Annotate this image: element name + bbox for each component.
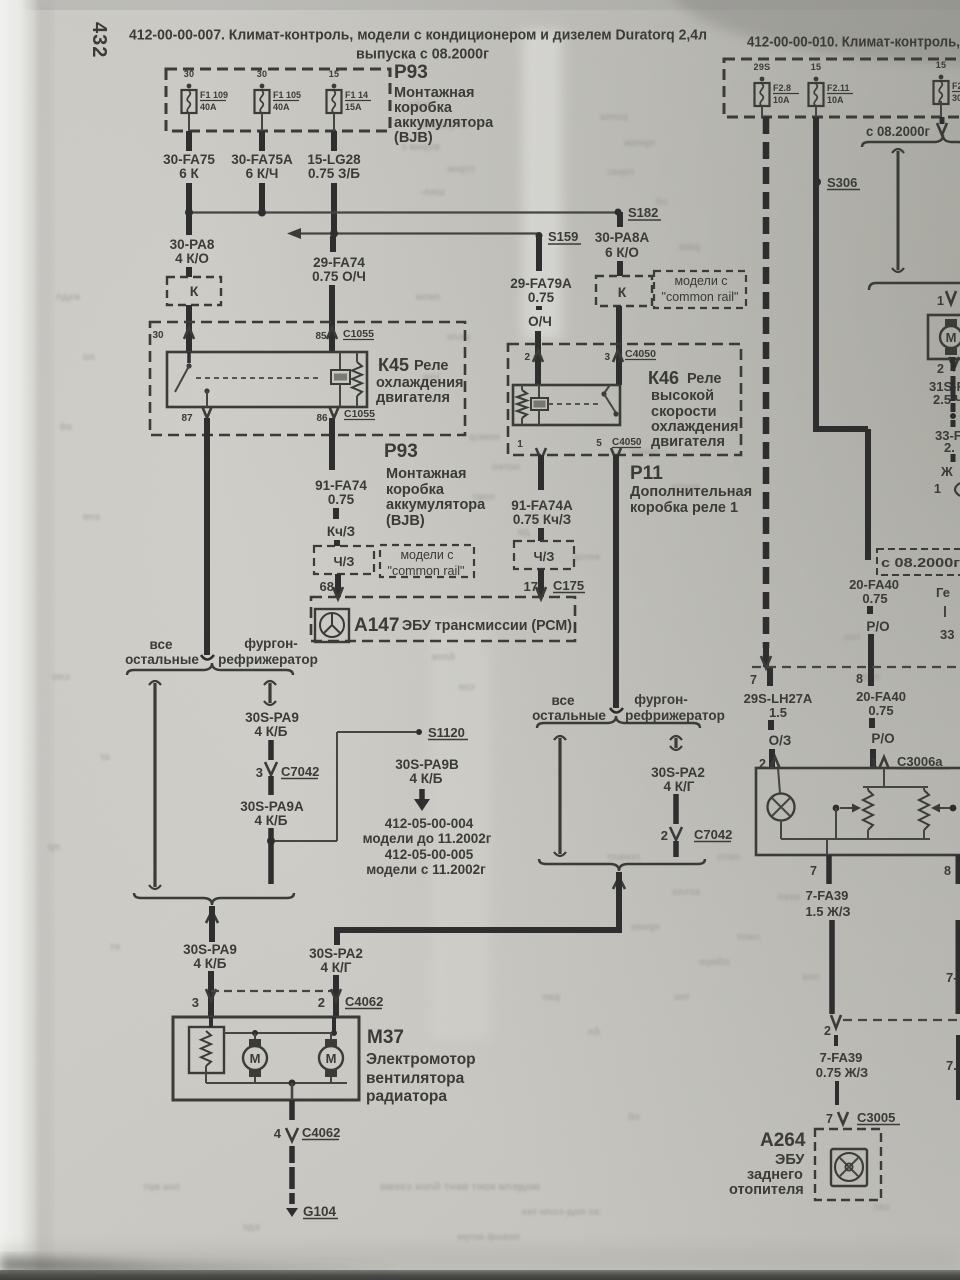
svg-text:Электромотор: Электромотор <box>366 1051 476 1068</box>
svg-text:1.5 Ж/З: 1.5 Ж/З <box>805 904 850 919</box>
svg-text:вентилятора: вентилятора <box>366 1070 465 1087</box>
svg-text:C4062: C4062 <box>345 994 383 1009</box>
svg-text:заднего: заднего <box>747 1167 803 1183</box>
svg-text:0.75 Ж/З: 0.75 Ж/З <box>816 1065 868 1080</box>
svg-text:реле: реле <box>446 332 470 343</box>
svg-text:15А: 15А <box>345 102 362 112</box>
svg-text:C175: C175 <box>553 578 584 593</box>
svg-text:1: 1 <box>934 482 941 496</box>
svg-text:превк: превк <box>630 922 660 933</box>
svg-text:котло: котло <box>672 887 700 898</box>
svg-text:40А: 40А <box>273 102 290 112</box>
svg-text:охлаждения: охлаждения <box>651 419 739 435</box>
svg-text:схе: схе <box>458 682 475 693</box>
svg-text:86: 86 <box>316 413 328 424</box>
svg-text:пок врт: пок врт <box>143 1182 180 1193</box>
svg-text:F1 105: F1 105 <box>273 90 301 100</box>
svg-text:с 08.2000г: с 08.2000г <box>866 124 930 139</box>
svg-text:строк: строк <box>446 164 475 175</box>
svg-text:30S-PA9: 30S-PA9 <box>183 942 237 957</box>
svg-text:2: 2 <box>937 362 944 376</box>
svg-text:30-PA8: 30-PA8 <box>170 237 215 252</box>
svg-text:C4050: C4050 <box>625 348 656 360</box>
svg-text:8: 8 <box>944 864 951 878</box>
svg-text:(BJB): (BJB) <box>394 130 433 146</box>
svg-text:F2.8: F2.8 <box>773 83 791 93</box>
svg-text:4 К/Г: 4 К/Г <box>664 779 695 794</box>
svg-text:с 08.2000г: с 08.2000г <box>881 555 960 570</box>
svg-text:Ч/З: Ч/З <box>534 549 555 564</box>
svg-text:Реле: Реле <box>687 371 721 387</box>
svg-text:издл: издл <box>56 292 80 303</box>
svg-text:ет: ет <box>110 942 120 953</box>
svg-text:30: 30 <box>184 69 195 79</box>
svg-text:котор: котор <box>572 552 600 563</box>
svg-text:2.5 Ч: 2.5 Ч <box>933 392 960 407</box>
svg-text:веко: веко <box>777 892 800 903</box>
svg-text:скорости: скорости <box>651 404 717 420</box>
svg-text:4: 4 <box>274 1126 282 1141</box>
svg-text:Р/О: Р/О <box>866 619 889 634</box>
svg-text:Ж: Ж <box>940 464 953 479</box>
svg-text:33: 33 <box>940 627 954 642</box>
svg-text:30S-PA9: 30S-PA9 <box>245 710 299 725</box>
svg-text:4 К/Б: 4 К/Б <box>255 813 288 828</box>
svg-text:2: 2 <box>661 828 668 843</box>
svg-text:Монтажная: Монтажная <box>386 466 466 482</box>
svg-text:рао: рао <box>542 992 560 1003</box>
svg-text:Р93: Р93 <box>384 441 418 462</box>
svg-text:ЭБУ: ЭБУ <box>775 1152 805 1168</box>
svg-text:29-FA74: 29-FA74 <box>313 255 365 270</box>
svg-text:15: 15 <box>329 69 340 79</box>
svg-text:2: 2 <box>318 995 325 1010</box>
svg-text:S1120: S1120 <box>428 725 465 740</box>
svg-text:30А: 30А <box>952 93 960 103</box>
svg-text:2: 2 <box>824 1024 831 1038</box>
svg-text:высокой: высокой <box>651 388 714 404</box>
svg-text:коробка: коробка <box>386 482 445 498</box>
svg-text:C1055: C1055 <box>343 328 374 340</box>
svg-text:М37: М37 <box>367 1027 404 1048</box>
svg-text:К: К <box>618 284 627 300</box>
svg-text:C3005: C3005 <box>857 1110 895 1125</box>
svg-text:А264: А264 <box>760 1130 806 1151</box>
svg-text:фургон-: фургон- <box>244 636 298 651</box>
svg-text:дв: дв <box>518 527 531 538</box>
svg-text:15: 15 <box>936 60 947 70</box>
svg-text:остальные: остальные <box>532 708 606 723</box>
svg-text:40А: 40А <box>200 102 217 112</box>
svg-text:А147: А147 <box>354 615 399 636</box>
svg-text:остальные: остальные <box>125 652 199 667</box>
svg-text:29S: 29S <box>754 62 771 72</box>
svg-text:7: 7 <box>826 1112 833 1126</box>
svg-text:C7042: C7042 <box>694 827 732 842</box>
svg-text:68: 68 <box>320 579 334 594</box>
svg-text:432: 432 <box>88 22 110 58</box>
svg-text:15: 15 <box>811 62 822 72</box>
svg-text:4 К/Б: 4 К/Б <box>255 724 288 739</box>
svg-text:Р11: Р11 <box>630 463 663 484</box>
svg-text:3: 3 <box>256 765 263 780</box>
svg-text:пком: пком <box>416 292 440 303</box>
svg-text:91-FA74: 91-FA74 <box>315 478 367 493</box>
svg-text:М: М <box>946 330 957 345</box>
svg-text:блок: блок <box>431 651 455 663</box>
svg-text:Монтажная: Монтажная <box>394 85 474 101</box>
svg-text:бл: бл <box>588 1026 600 1038</box>
svg-text:4 К/Б: 4 К/Б <box>194 956 227 971</box>
svg-text:4 К/О: 4 К/О <box>175 251 209 266</box>
svg-text:рам: рам <box>679 241 700 253</box>
svg-text:рефрижератор: рефрижератор <box>625 708 725 723</box>
svg-text:все: все <box>552 693 575 708</box>
svg-text:10А: 10А <box>827 95 844 105</box>
svg-text:7-FA39: 7-FA39 <box>820 1050 863 1065</box>
svg-text:30-PA8A: 30-PA8A <box>595 230 650 245</box>
svg-text:10А: 10А <box>773 95 790 105</box>
svg-text:модели с: модели с <box>674 274 727 288</box>
svg-text:C4050: C4050 <box>612 437 642 448</box>
svg-text:0.75: 0.75 <box>328 492 355 507</box>
svg-text:радиатора: радиатора <box>366 1088 447 1105</box>
svg-text:отопителя: отопителя <box>729 1182 804 1198</box>
svg-text:еде: еде <box>242 1222 260 1233</box>
svg-text:1: 1 <box>517 439 523 450</box>
svg-text:Р/О: Р/О <box>871 731 894 746</box>
svg-text:412-05-00-004: 412-05-00-004 <box>385 816 474 831</box>
svg-text:7.: 7. <box>946 1058 957 1073</box>
svg-text:генвлт: генвлт <box>607 852 640 863</box>
svg-text:модели с 11.2002г: модели с 11.2002г <box>366 862 486 877</box>
svg-text:сло: сло <box>52 672 70 683</box>
svg-text:7: 7 <box>810 864 817 878</box>
svg-text:М: М <box>250 1051 261 1066</box>
svg-text:G104: G104 <box>303 1204 337 1219</box>
svg-text:Кч/З: Кч/З <box>327 524 355 539</box>
svg-text:охлаждения: охлаждения <box>376 375 464 391</box>
svg-text:превж: превж <box>623 138 655 149</box>
svg-text:лок: лок <box>802 972 820 983</box>
svg-text:29-FA79A: 29-FA79A <box>510 276 572 291</box>
svg-text:по: по <box>83 352 95 363</box>
svg-text:аккумулятора: аккумулятора <box>386 497 486 513</box>
svg-text:0.75 О/Ч: 0.75 О/Ч <box>312 269 366 284</box>
svg-text:потео: потео <box>492 462 520 473</box>
svg-text:коробка: коробка <box>394 100 453 116</box>
svg-text:5: 5 <box>596 438 602 449</box>
svg-text:двигателя: двигателя <box>376 390 450 406</box>
svg-text:6 К/О: 6 К/О <box>605 245 639 260</box>
svg-text:30-FA75: 30-FA75 <box>163 152 215 167</box>
svg-text:30S-PA9A: 30S-PA9A <box>240 799 304 814</box>
svg-text:К45: К45 <box>378 355 409 375</box>
svg-text:2: 2 <box>524 352 530 363</box>
svg-text:4 К/Г: 4 К/Г <box>321 960 352 975</box>
svg-text:0.75 З/Б: 0.75 З/Б <box>308 166 360 181</box>
svg-text:роток: роток <box>599 112 628 123</box>
svg-text:овт: овт <box>873 1202 890 1213</box>
svg-text:412-00-00-007. Климат-контроль: 412-00-00-007. Климат-контроль, модели с… <box>129 28 707 44</box>
svg-text:20-FA40: 20-FA40 <box>856 689 906 704</box>
svg-text:412-05-00-005: 412-05-00-005 <box>385 847 474 862</box>
svg-text:0.75 Кч/З: 0.75 Кч/З <box>513 512 571 527</box>
svg-text:87: 87 <box>181 413 193 424</box>
svg-text:4 К/Б: 4 К/Б <box>410 771 443 786</box>
svg-text:"common rail": "common rail" <box>662 290 739 304</box>
svg-text:об: об <box>60 421 72 433</box>
svg-text:рефрижератор: рефрижератор <box>218 652 318 667</box>
svg-text:0.75: 0.75 <box>528 290 555 305</box>
svg-text:0.75: 0.75 <box>862 591 887 606</box>
svg-text:30S-PA2: 30S-PA2 <box>309 946 363 961</box>
svg-text:об: об <box>628 1111 640 1123</box>
svg-text:модели конт вент блок схема: модели конт вент блок схема <box>379 1181 540 1193</box>
svg-text:30-FA75A: 30-FA75A <box>231 152 293 167</box>
svg-text:"common rail": "common rail" <box>388 564 465 578</box>
svg-text:модели до 11.2002г: модели до 11.2002г <box>363 831 492 846</box>
svg-text:17: 17 <box>524 579 538 594</box>
svg-text:фургон-: фургон- <box>634 692 688 707</box>
svg-text:85: 85 <box>315 331 327 342</box>
svg-text:шил-: шил- <box>421 187 445 198</box>
svg-text:6 К/Ч: 6 К/Ч <box>246 166 279 181</box>
svg-text:8: 8 <box>856 672 863 686</box>
svg-text:номср: номср <box>469 432 500 443</box>
svg-text:ген: ген <box>844 632 860 643</box>
svg-text:Реле: Реле <box>414 358 448 374</box>
svg-text:1: 1 <box>937 294 944 308</box>
svg-text:ог: ог <box>100 752 110 763</box>
svg-text:6 К: 6 К <box>179 166 199 181</box>
svg-text:повнф котре: повнф котре <box>456 1231 520 1243</box>
svg-text:О/Ч: О/Ч <box>528 314 552 329</box>
svg-text:F2.3: F2.3 <box>952 81 960 91</box>
svg-text:(BJB): (BJB) <box>386 513 425 529</box>
svg-text:F1 14: F1 14 <box>345 90 368 100</box>
svg-text:412-00-00-010. Климат-контроль: 412-00-00-010. Климат-контроль, <box>747 35 960 51</box>
svg-text:Ч/З: Ч/З <box>334 554 355 569</box>
svg-text:выпуска с 08.2000г: выпуска с 08.2000г <box>356 47 489 63</box>
svg-text:30S-PA9B: 30S-PA9B <box>395 757 459 772</box>
svg-text:Р93: Р93 <box>394 62 428 83</box>
svg-text:торас: торас <box>606 167 635 178</box>
svg-text:20-FA40: 20-FA40 <box>849 577 899 592</box>
svg-text:29S-LH27A: 29S-LH27A <box>744 691 813 706</box>
svg-text:91-FA74A: 91-FA74A <box>511 498 573 513</box>
svg-text:S306: S306 <box>827 175 857 190</box>
svg-text:30: 30 <box>152 330 164 341</box>
svg-text:коробка реле 1: коробка реле 1 <box>630 500 738 516</box>
svg-text:F1 109: F1 109 <box>200 90 228 100</box>
svg-text:7-FA39: 7-FA39 <box>806 888 849 903</box>
svg-text:эл под-солн тех: эл под-солн тех <box>521 1207 600 1218</box>
svg-text:S159: S159 <box>548 229 578 244</box>
svg-text:F2.11: F2.11 <box>827 83 850 93</box>
svg-text:3: 3 <box>192 995 199 1010</box>
svg-text:C7042: C7042 <box>281 764 319 779</box>
svg-text:C4062: C4062 <box>302 1125 340 1140</box>
svg-text:Ге: Ге <box>936 585 950 600</box>
svg-text:смот: смот <box>736 932 760 943</box>
svg-text:15-LG28: 15-LG28 <box>307 152 361 167</box>
svg-text:30: 30 <box>257 69 268 79</box>
svg-text:овто: овто <box>717 852 740 863</box>
svg-text:К46: К46 <box>648 368 679 388</box>
svg-text:3: 3 <box>604 352 610 363</box>
svg-text:модели с: модели с <box>400 548 453 562</box>
svg-text:двигателя: двигателя <box>651 434 725 450</box>
svg-text:Дополнительная: Дополнительная <box>630 484 752 500</box>
svg-text:все: все <box>150 637 173 652</box>
svg-text:C1055: C1055 <box>344 408 375 420</box>
svg-text:аккумулятора: аккумулятора <box>394 115 494 131</box>
svg-text:0.75: 0.75 <box>868 703 893 718</box>
svg-text:ЭБУ трансмиссии (РСМ): ЭБУ трансмиссии (РСМ) <box>402 617 572 634</box>
svg-text:30S-PA2: 30S-PA2 <box>651 765 705 780</box>
svg-text:обмре: обмре <box>698 956 730 968</box>
svg-text:М: М <box>326 1051 337 1066</box>
svg-text:S182: S182 <box>628 205 658 220</box>
svg-text:О/З: О/З <box>769 733 792 748</box>
svg-text:ток: ток <box>673 992 690 1003</box>
svg-text:7: 7 <box>750 673 757 687</box>
svg-text:1.5: 1.5 <box>769 705 787 720</box>
svg-text:2.: 2. <box>944 440 955 455</box>
svg-text:К: К <box>190 283 199 299</box>
svg-text:еле: еле <box>82 512 100 523</box>
